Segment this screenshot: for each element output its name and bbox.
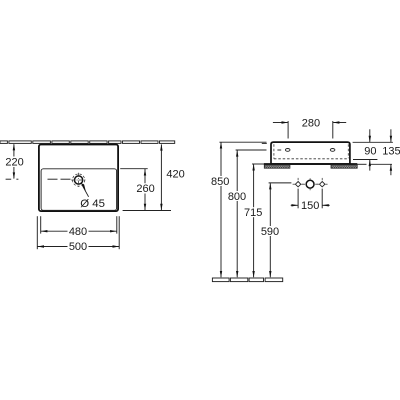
small centerline ticks around holes <box>293 178 328 190</box>
dimension 420 <box>160 144 162 210</box>
extension line interior bottom (for 90) <box>353 159 377 161</box>
svg-text:715: 715 <box>244 207 262 219</box>
svg-text:800: 800 <box>228 191 246 203</box>
extension line basin bottom (for 135, dashed) <box>355 163 393 165</box>
extension line to drain level (590) <box>269 182 292 184</box>
dimension 500 <box>37 246 119 248</box>
extension line basin top edge (for 90/135) <box>353 141 393 143</box>
dimension 90 <box>369 129 371 170</box>
dimension 135 <box>390 129 392 175</box>
dimension 220 (wall to tap centerline) <box>13 144 15 178</box>
basin profile outline <box>271 142 350 164</box>
svg-text:480: 480 <box>69 226 87 238</box>
centerline dash left of tap hole <box>277 149 281 151</box>
wall tile line (segmented) <box>0 141 175 144</box>
svg-text:Ø 45: Ø 45 <box>80 198 105 210</box>
svg-text:500: 500 <box>69 241 87 253</box>
mounting bracket left (hatched) <box>264 165 290 168</box>
svg-text:420: 420 <box>166 169 184 181</box>
svg-text:590: 590 <box>261 226 279 238</box>
basin inner bowl outline <box>41 169 117 211</box>
svg-text:280: 280 <box>302 118 320 130</box>
dimension 590 (floor to drain) <box>269 183 271 277</box>
leader arrow to Ø45 label <box>81 183 89 197</box>
extension lines below fixing holes (for 150) <box>298 189 322 209</box>
hidden inner wall (dashed vertical) <box>273 144 275 159</box>
tap hole (left oval) <box>285 149 290 152</box>
basin bottom edge extended over brackets <box>264 163 357 165</box>
dimension 150 <box>291 204 330 206</box>
mounting bracket right (hatched) <box>331 165 357 168</box>
basin outer outline (plan) <box>39 145 118 212</box>
fixing hole left (diamond) <box>295 182 300 187</box>
svg-text:150: 150 <box>301 200 319 212</box>
dimension 850 (floor to rim) <box>220 142 222 277</box>
dimension 715 (floor to basin bottom) <box>253 164 255 277</box>
svg-text:220: 220 <box>5 156 23 168</box>
dimension 800 (floor to tap hole) <box>236 150 238 277</box>
extension lines below basin for 480/500 <box>37 216 119 249</box>
tap hole Ø45 <box>71 173 86 188</box>
dimension 280 (hole spacing) <box>273 121 346 139</box>
extension line to tap hole level (800) <box>236 143 267 150</box>
svg-text:260: 260 <box>136 183 154 195</box>
centerline through tap hole (dash-dot) <box>6 178 71 180</box>
dimension 260 <box>144 169 146 210</box>
hidden interior bottom (dashed horizontal) <box>274 158 348 160</box>
extension line from inner bowl rear edge (for 260) <box>120 168 148 170</box>
hidden inner wall right (dashed vertical) <box>347 144 349 158</box>
svg-text:135: 135 <box>382 145 400 157</box>
overflow hole (right oval) <box>330 149 335 152</box>
extension line to basin bottom (715) <box>252 163 264 165</box>
extension line from basin front edge (for 260/420) <box>123 210 171 212</box>
dimension 480 <box>41 230 117 232</box>
svg-text:90: 90 <box>364 145 376 157</box>
floor tile line (segmented) <box>212 278 282 282</box>
drain hole circle <box>306 180 314 188</box>
fixing hole right (diamond) <box>320 182 325 187</box>
extension line to basin top (850) <box>219 141 266 143</box>
svg-text:850: 850 <box>211 176 229 188</box>
